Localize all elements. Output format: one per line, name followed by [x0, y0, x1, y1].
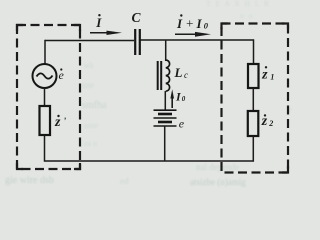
top wire (capacitor to right corner)	[141, 39, 254, 41]
inductor core bars	[157, 61, 159, 90]
bottom wire	[45, 160, 254, 162]
svg-text:1: 1	[270, 73, 274, 82]
left dashed box (source network)	[17, 25, 80, 169]
wire: z' box to bottom wire	[44, 135, 46, 162]
svg-text:2: 2	[268, 119, 273, 128]
impedance z2 box	[248, 111, 258, 136]
svg-text:0: 0	[204, 21, 209, 31]
svg-text:nal depende: nal depende	[196, 162, 239, 172]
right dashed box (load network)	[222, 24, 289, 173]
svg-text:z: z	[261, 67, 268, 82]
svg-text:z: z	[54, 115, 61, 130]
current arrow I (shaft+head)	[90, 32, 110, 34]
svg-text:ea n: ea n	[84, 139, 97, 148]
svg-text:C: C	[132, 10, 142, 25]
svg-text:gie wire dsb: gie wire dsb	[5, 175, 54, 186]
svg-text:L: L	[174, 65, 183, 80]
svg-text:seue: seue	[84, 121, 99, 130]
current arrow I0 (up)	[171, 96, 173, 108]
impedance z1 box	[248, 64, 259, 88]
wire: coil to battery	[164, 91, 166, 110]
svg-text:c: c	[184, 70, 188, 80]
svg-text:I: I	[95, 15, 102, 30]
svg-text:e: e	[179, 117, 185, 131]
svg-text:n u: n u	[240, 11, 254, 20]
right branch: corner down to z1	[253, 39, 255, 64]
svg-text:sne: sne	[82, 80, 94, 90]
svg-text:wk: wk	[84, 61, 94, 70]
capacitor C plates	[134, 29, 136, 55]
svg-text:smfha: smfha	[82, 100, 107, 111]
wire: z1 to z2	[252, 88, 254, 111]
svg-text:I: I	[176, 16, 183, 31]
svg-text:atsizbe (n)amig: atsizbe (n)amig	[190, 177, 246, 187]
inductor Lc coil (bumps to right)	[166, 60, 170, 91]
paper background	[0, 0, 298, 188]
wire: z2 to bottom wire	[252, 136, 254, 162]
wire: battery to bottom wire	[164, 126, 166, 161]
left branch wire: corner down to source	[44, 40, 46, 64]
svg-text:I: I	[196, 16, 203, 31]
battery e plates	[154, 109, 177, 111]
AC source sine wave	[37, 73, 53, 78]
svg-text:T E A X H L R: T E A X H L R	[206, 0, 271, 8]
svg-text:0: 0	[182, 95, 186, 103]
wire: source to impedance z'	[44, 88, 46, 106]
svg-text:+: +	[185, 16, 194, 31]
AC source circle	[33, 64, 57, 88]
middle branch wire: top wire down to coil	[165, 40, 167, 61]
impedance z' box	[40, 106, 51, 135]
top wire (left segment to capacitor)	[45, 40, 134, 42]
current arrow I+I0 (shaft+head)	[175, 33, 198, 35]
svg-text:ed: ed	[120, 176, 129, 186]
